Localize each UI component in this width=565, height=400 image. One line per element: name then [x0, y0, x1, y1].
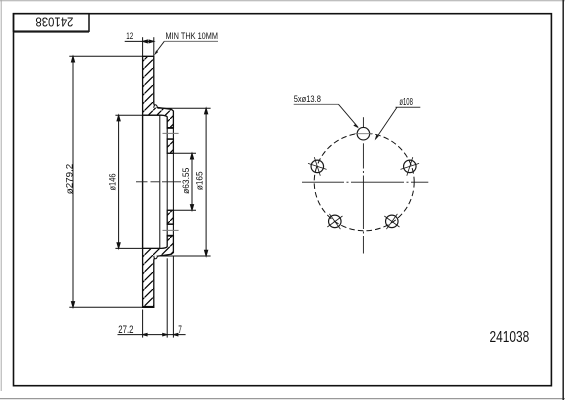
dimension Ø165: [158, 108, 211, 256]
dimension Ø146: [115, 115, 159, 248]
svg-text:7: 7: [178, 324, 182, 336]
disc bottom edge thick line: [143, 306, 154, 308]
dimension Ø63.55: [167, 153, 196, 210]
wall face lines across bolt holes: [166, 128, 168, 139]
disc lower half section (friction ring + hub rim + wall bottom): [143, 236, 174, 308]
bolt hole centerline lower: [163, 229, 179, 231]
axis centerline: [136, 181, 181, 183]
bolt hole left: [308, 157, 327, 176]
bolt hole edge bars: [167, 127, 174, 129]
svg-text:241038: 241038: [490, 329, 530, 346]
horizontal centerline: [302, 181, 428, 183]
vertical centerline: [362, 117, 364, 253]
title box: [14, 14, 90, 32]
hub wall segment between top bolt hole and bore: [167, 139, 173, 153]
bolt hole right: [401, 157, 420, 176]
svg-text:MIN THK 10MM: MIN THK 10MM: [166, 31, 219, 42]
svg-text:241038: 241038: [35, 14, 73, 28]
svg-text:ø146: ø146: [107, 173, 117, 190]
bolt hole centerline upper: [163, 132, 179, 134]
bolt hole top: [357, 127, 370, 140]
hub inner step edge line: [159, 115, 161, 248]
svg-text:27.2: 27.2: [118, 324, 133, 336]
disc left face silhouette line: [142, 115, 144, 248]
svg-text:ø63.55: ø63.55: [181, 168, 191, 194]
svg-text:12: 12: [126, 31, 133, 41]
svg-text:ø279.2: ø279.2: [65, 164, 75, 195]
svg-text:ø165: ø165: [195, 171, 205, 190]
svg-text:ø108: ø108: [399, 97, 413, 108]
dimension 12: [125, 37, 154, 56]
hub rim fillet bump bottom: [154, 256, 158, 259]
dimension 27.2 and 7: [118, 256, 186, 337]
svg-text:5xø13.8: 5xø13.8: [294, 94, 321, 105]
bolt circle (dashed): [314, 133, 414, 231]
dimension Ø279.2: [69, 56, 142, 307]
page edge scan lines: [0, 0, 565, 2]
hub wall segment between bore and bottom bolt hole: [167, 210, 173, 224]
disc upper half section (friction ring + hub rim + wall top): [143, 56, 174, 128]
hub rim fillet bump top: [154, 105, 158, 108]
bolt hole lower-left: [327, 214, 342, 229]
hub bore silhouette lines: [166, 153, 168, 210]
bolt hole lower-right: [384, 214, 399, 229]
